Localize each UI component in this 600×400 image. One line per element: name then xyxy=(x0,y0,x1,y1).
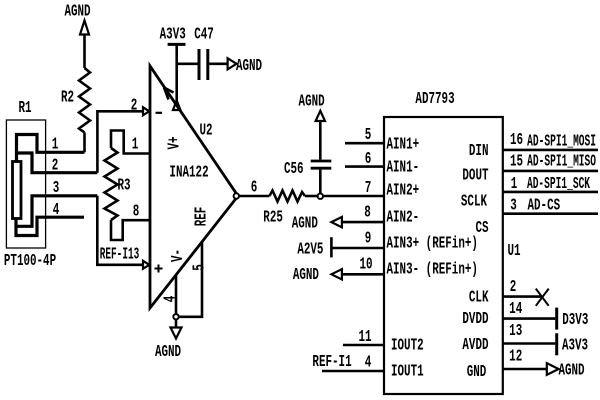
no-connect X on CLK xyxy=(536,289,549,306)
svg-text:5: 5 xyxy=(190,264,209,271)
svg-text:INA122: INA122 xyxy=(169,163,208,182)
arrowhead into op-amp pin 3 xyxy=(143,261,149,269)
wire op-amp pin 5 down and to pin 4 node xyxy=(179,242,202,317)
svg-text:AGND: AGND xyxy=(292,214,318,233)
svg-text:AD7793: AD7793 xyxy=(415,90,454,109)
svg-text:16: 16 xyxy=(510,131,523,150)
svg-text:AIN3+ (REFin+): AIN3+ (REFin+) xyxy=(387,234,478,253)
ground AGND arrow at U1 pin 12 xyxy=(547,363,559,375)
wire U1 pin 11 IOUT2 xyxy=(343,344,384,347)
svg-text:DVDD: DVDD xyxy=(462,310,488,329)
svg-text:8: 8 xyxy=(364,204,371,223)
wire U1 pin 10 AIN3- xyxy=(342,273,384,276)
svg-text:13: 13 xyxy=(509,322,522,341)
svg-text:AD-CS: AD-CS xyxy=(527,196,560,215)
svg-text:1: 1 xyxy=(52,135,59,154)
svg-text:REF: REF xyxy=(192,207,211,227)
svg-text:DOUT: DOUT xyxy=(462,166,488,185)
svg-text:AGND: AGND xyxy=(236,57,262,76)
wire U1 pin 4 IOUT1 (net REF-I1) xyxy=(322,370,384,373)
svg-text:AD-SPI1_MOSI: AD-SPI1_MOSI xyxy=(527,133,596,151)
svg-text:R25: R25 xyxy=(263,209,283,228)
svg-text:3: 3 xyxy=(53,179,60,198)
wire R1 pin 4 stub (element bottom to pin 4) xyxy=(16,217,84,235)
svg-text:SCLK: SCLK xyxy=(461,192,488,211)
svg-text:1: 1 xyxy=(511,175,518,194)
svg-text:AGND: AGND xyxy=(64,3,90,22)
wire U1 pin 14 DVDD xyxy=(503,317,556,320)
arrowhead at end of A3V3 wire on op-amp edge xyxy=(173,101,181,111)
svg-text:2: 2 xyxy=(52,156,59,175)
svg-text:11: 11 xyxy=(358,328,371,347)
IC U1 AD7793 box xyxy=(384,117,503,394)
svg-text:2: 2 xyxy=(510,278,517,297)
svg-text:A3V3: A3V3 xyxy=(160,25,186,44)
resistor R25 xyxy=(269,191,305,202)
node junction circle at op-amp pin 4 xyxy=(173,314,178,319)
svg-text:AIN3- (REFin+): AIN3- (REFin+) xyxy=(387,260,478,279)
svg-text:R1: R1 xyxy=(18,99,31,118)
svg-text:12: 12 xyxy=(509,348,522,367)
svg-text:10: 10 xyxy=(359,256,372,275)
svg-text:C47: C47 xyxy=(194,25,214,44)
wire U1 pin 9 AIN3+ xyxy=(331,247,384,250)
svg-text:7: 7 xyxy=(365,179,372,198)
svg-text:4: 4 xyxy=(53,201,60,220)
wire U1 pin 2 CLK with no-connect xyxy=(503,295,542,298)
capacitor C47 xyxy=(177,49,228,80)
svg-text:REF-I1: REF-I1 xyxy=(312,353,351,372)
svg-text:2: 2 xyxy=(131,96,138,115)
svg-text:C56: C56 xyxy=(284,160,304,179)
svg-text:AGND: AGND xyxy=(293,266,319,285)
power A3V3 bar at AVDD xyxy=(555,333,558,355)
power D3V3 bar xyxy=(555,308,558,330)
svg-text:AGND: AGND xyxy=(155,343,181,362)
ground AGND arrow right of C47 xyxy=(228,58,237,69)
wire U1 pin 15 DOUT (net AD-SPI1_MISO) xyxy=(503,170,598,173)
wire R3 top to op-amp pin 1 xyxy=(111,131,150,154)
svg-text:15: 15 xyxy=(510,152,523,171)
svg-text:U1: U1 xyxy=(507,242,520,261)
arrowhead into op-amp pin 2 xyxy=(143,107,149,115)
svg-text:4: 4 xyxy=(365,353,372,372)
connector R1 box xyxy=(6,120,45,248)
wire U1 pin 16 DIN (net AD-SPI1_MOSI) xyxy=(503,149,598,152)
svg-text:AVDD: AVDD xyxy=(462,336,488,355)
svg-text:V-: V- xyxy=(169,249,188,262)
svg-text:CLK: CLK xyxy=(469,288,489,307)
wire R3 bottom to op-amp pin 8 xyxy=(111,220,150,240)
svg-text:9: 9 xyxy=(365,230,372,249)
minus sign at inverting input xyxy=(156,112,163,114)
svg-text:D3V3: D3V3 xyxy=(562,311,588,330)
junction node circle (R25 / C56 / AIN2+) xyxy=(318,194,323,199)
wire U1 pin 7 AIN2+ from junction xyxy=(323,195,384,198)
op-amp U2 triangle body xyxy=(150,66,238,308)
power A3V3 bar and wire into op-amp V+ xyxy=(168,44,186,102)
arrow on op-amp top edge xyxy=(164,88,174,100)
wire R1 pin 1 (element top to pin 1, joins R2 bottom) xyxy=(17,135,85,162)
svg-text:CS: CS xyxy=(475,219,488,238)
ground AGND arrow below op-amp xyxy=(171,320,182,339)
resistor R2 xyxy=(79,68,90,152)
svg-text:AIN1-: AIN1- xyxy=(387,158,420,177)
wire R1 pin 2 to op-amp inverting input xyxy=(97,111,143,172)
wire U1 pin 8 AIN2- xyxy=(342,221,384,224)
wire op-amp pin 4 to AGND node xyxy=(175,275,178,315)
wire U1 pin 5 AIN1+ xyxy=(345,142,384,145)
wire U1 pin 6 AIN1- xyxy=(345,165,384,168)
wire U1 pin 3 CS (net AD-CS) xyxy=(503,212,598,215)
svg-text:AIN2-: AIN2- xyxy=(387,208,420,227)
svg-text:DIN: DIN xyxy=(469,142,489,161)
svg-text:1: 1 xyxy=(132,135,139,154)
svg-text:A3V3: A3V3 xyxy=(562,337,588,356)
node circle at op-amp output pin 6 xyxy=(234,193,239,198)
wire R25 to junction node xyxy=(305,195,318,198)
wire op-amp output to R25 xyxy=(239,195,269,198)
ground AGND arrow at U1 pin 10 xyxy=(331,269,342,279)
svg-text:14: 14 xyxy=(509,300,522,319)
wire R1 pin 2 (element top branch to pin 2) xyxy=(17,153,98,173)
svg-text:V+: V+ xyxy=(165,136,184,149)
svg-text:R3: R3 xyxy=(117,176,130,195)
svg-text:PT100-4P: PT100-4P xyxy=(4,252,56,271)
svg-text:U2: U2 xyxy=(199,121,212,140)
ground AGND arrow above C56 xyxy=(316,111,325,121)
resistor R3 (gain set) xyxy=(105,148,118,220)
svg-text:AGND: AGND xyxy=(558,361,584,380)
svg-text:3: 3 xyxy=(510,196,517,215)
svg-text:REF-I13: REF-I13 xyxy=(100,246,139,264)
wire R1 pin 3 to op-amp non-inverting input (net REF-I13) xyxy=(97,196,143,265)
wire U1 pin 13 AVDD xyxy=(503,342,556,345)
svg-text:5: 5 xyxy=(365,126,372,145)
svg-text:6: 6 xyxy=(365,150,372,169)
wire U1 pin 1 SCLK (net AD-SPI1_SCK) xyxy=(503,191,598,194)
svg-text:AD-SPI1_SCK: AD-SPI1_SCK xyxy=(527,176,591,194)
ground AGND arrow symbol (top of R2) xyxy=(80,21,89,69)
svg-text:IOUT2: IOUT2 xyxy=(391,337,424,356)
power A2V5 bar at U1 pin 9 xyxy=(330,237,333,257)
capacitor C56 xyxy=(311,121,332,194)
svg-text:6: 6 xyxy=(251,178,258,197)
svg-text:4: 4 xyxy=(161,296,180,303)
svg-text:8: 8 xyxy=(133,202,140,221)
svg-text:IOUT1: IOUT1 xyxy=(391,362,424,381)
svg-text:AIN1+: AIN1+ xyxy=(387,136,420,155)
plus sign at non-inverting input xyxy=(155,265,163,273)
svg-text:AIN2+: AIN2+ xyxy=(387,182,420,201)
ground AGND arrow at U1 pin 8 xyxy=(331,217,342,227)
wire R1 pin 3 (element bottom to pin 3) xyxy=(16,196,97,227)
PT100 sensing element inside R1 xyxy=(13,162,22,219)
svg-text:AD-SPI1_MISO: AD-SPI1_MISO xyxy=(527,153,596,171)
svg-text:R2: R2 xyxy=(61,88,74,107)
wire U1 pin 12 GND xyxy=(503,368,547,371)
svg-text:AGND: AGND xyxy=(299,92,325,111)
svg-text:GND: GND xyxy=(467,363,487,382)
svg-text:A2V5: A2V5 xyxy=(297,240,323,259)
